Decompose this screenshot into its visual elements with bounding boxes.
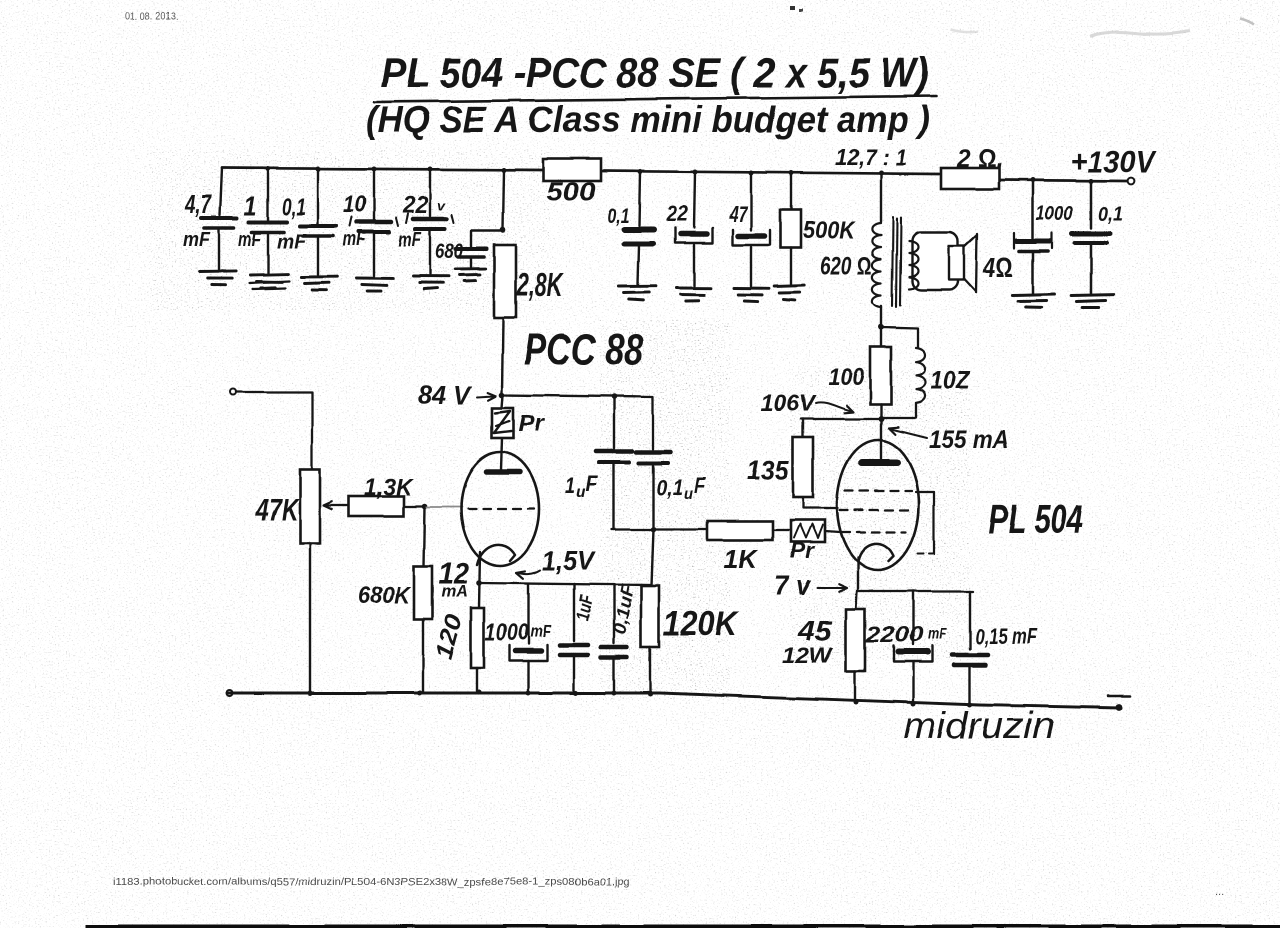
svg-text:1: 1 bbox=[565, 472, 575, 498]
svg-text:mF: mF bbox=[238, 229, 262, 251]
svg-text:10Z: 10Z bbox=[930, 365, 971, 395]
svg-text:mF: mF bbox=[928, 626, 948, 643]
svg-text:0,1: 0,1 bbox=[1098, 204, 1123, 226]
svg-text:500K: 500K bbox=[803, 217, 857, 244]
svg-text:620 Ω: 620 Ω bbox=[820, 252, 872, 280]
svg-text:1000: 1000 bbox=[1036, 203, 1073, 225]
svg-text:4,7: 4,7 bbox=[184, 189, 212, 219]
svg-text:u: u bbox=[576, 484, 586, 501]
svg-text:mF: mF bbox=[398, 229, 422, 251]
svg-text:106V: 106V bbox=[760, 390, 817, 416]
svg-text:22: 22 bbox=[402, 192, 429, 219]
svg-text:1: 1 bbox=[244, 190, 257, 221]
svg-text:u: u bbox=[684, 486, 693, 503]
svg-text:PCC 88: PCC 88 bbox=[524, 325, 643, 374]
svg-text:mF: mF bbox=[183, 229, 211, 251]
svg-text:mF: mF bbox=[343, 229, 367, 251]
svg-text:i1183.photobucket.com/albums/q: i1183.photobucket.com/albums/q557/midruz… bbox=[113, 876, 630, 888]
svg-text:10: 10 bbox=[343, 191, 367, 218]
svg-text:100: 100 bbox=[828, 364, 865, 391]
svg-text:155 mA: 155 mA bbox=[929, 426, 1009, 454]
svg-text:v: v bbox=[437, 198, 446, 213]
svg-text:2,8K: 2,8K bbox=[516, 266, 563, 303]
svg-text:680: 680 bbox=[435, 240, 463, 263]
svg-text:2200: 2200 bbox=[865, 622, 924, 647]
svg-text:500: 500 bbox=[546, 178, 596, 206]
svg-text:120K: 120K bbox=[663, 605, 739, 643]
svg-text:0,1: 0,1 bbox=[607, 205, 629, 228]
svg-text:0,1: 0,1 bbox=[656, 475, 683, 500]
svg-text:45: 45 bbox=[797, 615, 833, 646]
svg-text:PL 504 -PCC 88 SE ( 2 x 5,5: PL 504 -PCC 88 SE ( 2 x 5,5 W) bbox=[381, 49, 929, 96]
svg-text:47K: 47K bbox=[255, 492, 300, 527]
svg-text:4Ω: 4Ω bbox=[982, 252, 1013, 283]
svg-text:F: F bbox=[586, 471, 598, 496]
svg-text:22: 22 bbox=[665, 201, 689, 226]
svg-text:F: F bbox=[694, 473, 706, 498]
svg-text:135: 135 bbox=[747, 455, 790, 485]
svg-text:7 v: 7 v bbox=[774, 570, 811, 601]
svg-text:1000: 1000 bbox=[485, 619, 529, 646]
svg-text:PL 504: PL 504 bbox=[988, 496, 1083, 542]
svg-text:(HQ SE A Class mini budget amp: (HQ SE A Class mini budget amp ) bbox=[366, 99, 930, 140]
svg-text:mA: mA bbox=[441, 582, 468, 601]
svg-text:1K: 1K bbox=[724, 544, 759, 574]
svg-text:01. 08. 2013.: 01. 08. 2013. bbox=[125, 11, 178, 23]
svg-text:0,1: 0,1 bbox=[282, 194, 306, 221]
svg-text:1,5V: 1,5V bbox=[542, 546, 596, 576]
svg-text:0,15 mF: 0,15 mF bbox=[975, 624, 1037, 649]
svg-text:Pr: Pr bbox=[790, 538, 815, 563]
svg-text:2 Ω.: 2 Ω. bbox=[956, 145, 1003, 173]
svg-text:12W: 12W bbox=[782, 643, 834, 668]
svg-text:...: ... bbox=[1215, 886, 1224, 898]
svg-text:1,3K: 1,3K bbox=[364, 474, 414, 501]
svg-text:Pr: Pr bbox=[518, 410, 545, 436]
svg-text:+130V: +130V bbox=[1070, 144, 1157, 179]
svg-text:680K: 680K bbox=[358, 582, 412, 609]
svg-text:84 V: 84 V bbox=[418, 380, 473, 410]
svg-text:47: 47 bbox=[728, 202, 748, 227]
svg-text:12,7 : 1: 12,7 : 1 bbox=[835, 144, 907, 170]
svg-text:midruzin: midruzin bbox=[903, 705, 1055, 746]
svg-text:mF: mF bbox=[277, 231, 307, 253]
svg-text:mF: mF bbox=[530, 622, 552, 641]
